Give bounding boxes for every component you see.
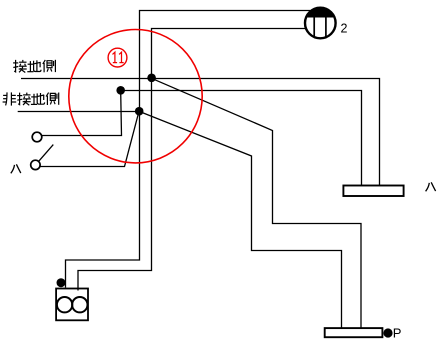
label HA (right fixture)	[426, 182, 436, 191]
wire from node B to fluorescent HA	[121, 91, 362, 186]
kanji: 地	[31, 93, 45, 104]
switch upper terminal circle	[32, 132, 42, 142]
label hi-sesschi-gawa (non-grounded side) kanji: 非	[3, 92, 17, 105]
wire non-grounded-side (hi-sesschi-gawa) to node C	[18, 111, 140, 113]
junction dot at outlet	[57, 278, 66, 287]
wire from lamp pin1 down V1 and to outlet (non-grounded feed)	[66, 11, 311, 288]
label sesschi-gawa (grounded side) kanji: 接	[13, 60, 27, 73]
switch lever	[39, 145, 53, 161]
wire switch upper terminal up to node B	[42, 92, 122, 136]
kanji: 側	[46, 93, 59, 106]
junction node A	[147, 74, 156, 83]
wire diagonal from node C to bottom fluorescent P	[140, 112, 342, 329]
wire from lamp pin2 down V2 and to outlet	[78, 29, 306, 291]
kanji: 地	[27, 60, 41, 71]
fluorescent fixture HA (right bar)	[343, 186, 403, 197]
wire grounded-side (sesschi-gawa) to fluorescent HA	[21, 79, 380, 186]
junction node B	[116, 86, 125, 95]
double outlet (2-gang receptacle)	[56, 289, 88, 321]
wire switch lower terminal slant up to node C	[40, 112, 139, 167]
pull-switch dot	[383, 328, 392, 337]
label HA (switch)	[11, 164, 21, 173]
wire diagonal from node A to bottom fluorescent P	[152, 78, 362, 328]
kanji: 側	[43, 60, 56, 73]
svg-text:2: 2	[341, 21, 348, 35]
red circled 11 marker	[108, 48, 127, 67]
switch lower terminal circle	[31, 160, 40, 169]
red highlight circle	[69, 30, 202, 163]
fluorescent fixture with pull switch (bottom bar)	[325, 328, 383, 337]
kanji: 接	[17, 93, 31, 106]
lamp fixture (ceiling light) circle	[305, 8, 336, 39]
svg-text:P: P	[393, 326, 402, 341]
junction node C	[135, 107, 144, 116]
